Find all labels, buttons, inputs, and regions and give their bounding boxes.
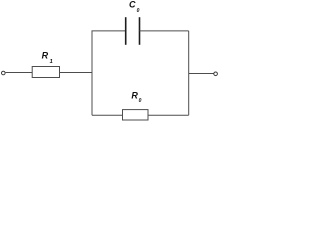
wire (to right terminal) (189, 73, 214, 75)
node: left junction / wire (left vertical of parallel section) (91, 31, 93, 115)
right terminal (214, 72, 218, 76)
svg-text:R: R (42, 51, 49, 61)
wire (bottom branch, left of R0) (92, 114, 123, 116)
svg-text:1: 1 (50, 59, 53, 65)
resistor R0 (123, 110, 149, 120)
wire (top branch, left of capacitor) (92, 30, 126, 32)
wire (right vertical of parallel section) (188, 31, 190, 115)
left terminal (2, 71, 6, 75)
capacitor C0 (126, 17, 140, 45)
resistor R1 (32, 67, 59, 78)
svg-text:C: C (129, 0, 136, 10)
wire (60, 72, 93, 74)
wire (6, 72, 33, 74)
wire (bottom branch, right of R0) (148, 114, 189, 116)
svg-text:R: R (131, 91, 138, 101)
wire (top branch, right of capacitor) (140, 30, 189, 32)
svg-text:0: 0 (137, 8, 140, 14)
svg-text:0: 0 (139, 98, 142, 104)
